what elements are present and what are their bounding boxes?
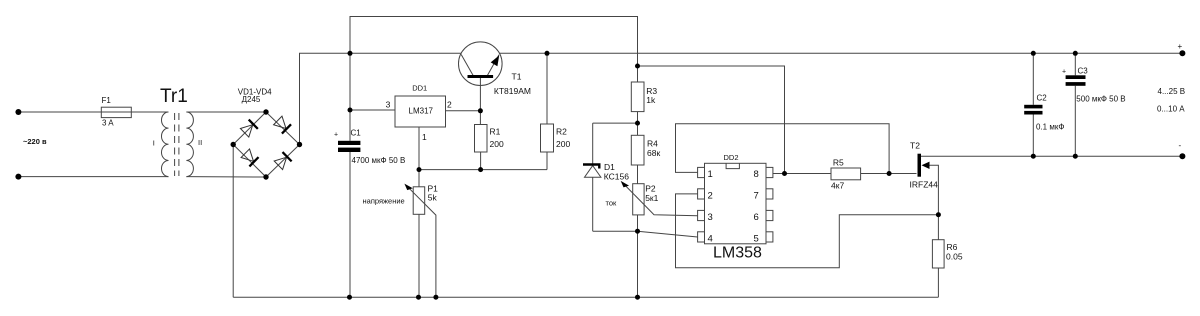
wire P2 bottom to junction and rail <box>637 215 639 297</box>
svg-text:Tr1: Tr1 <box>160 86 188 107</box>
transistor T1 collector diagonal <box>461 55 473 76</box>
wire R1 top <box>479 111 481 125</box>
LM358 pin4 box <box>698 232 705 242</box>
wire C1 to bottom rail <box>349 152 351 297</box>
wire AC bottom input <box>18 176 168 178</box>
wire R6 top <box>937 215 939 240</box>
LM358 pin5 box <box>766 232 773 242</box>
capacitor C1 plates <box>338 141 360 145</box>
wire zener bottom to P2 junction <box>593 230 638 232</box>
svg-text:4к7: 4к7 <box>831 181 844 191</box>
resistor R4 box <box>631 135 644 165</box>
svg-text:68к: 68к <box>647 148 660 158</box>
wire LM317 output pin2 <box>446 110 481 112</box>
wire y66 line to pin8 column <box>638 66 785 174</box>
resistor R1 box <box>475 125 488 153</box>
svg-text:R5: R5 <box>833 158 844 168</box>
wire P1 bottom to rail <box>418 214 420 297</box>
transistor T1 body circle <box>459 42 503 86</box>
svg-text:2: 2 <box>447 100 452 110</box>
svg-text:R4: R4 <box>647 139 658 149</box>
svg-text:5к1: 5к1 <box>645 193 658 203</box>
svg-text:LM317: LM317 <box>409 107 434 116</box>
node C1 top junction <box>348 51 353 56</box>
node output plus terminal <box>1179 50 1185 56</box>
svg-text:DD1: DD1 <box>412 84 427 93</box>
svg-text:1: 1 <box>708 169 713 180</box>
diode VD3 bridge left-bottom <box>241 149 260 168</box>
node C2 bottom junction <box>1031 154 1036 159</box>
IC DD2 notch <box>726 163 739 168</box>
svg-text:7: 7 <box>754 191 759 202</box>
svg-text:1k: 1k <box>646 95 656 105</box>
wire T1 emitter rail to output plus <box>500 52 1183 54</box>
svg-text:3: 3 <box>708 212 713 223</box>
svg-text:T2: T2 <box>910 141 920 151</box>
IC DD1 LM317 box <box>395 96 446 127</box>
svg-text:ток: ток <box>606 199 618 208</box>
wire T1 collector <box>350 52 461 54</box>
svg-text:0.1 мкФ: 0.1 мкФ <box>1036 123 1064 132</box>
wire adj line <box>419 169 547 171</box>
wire R3 to R4 <box>637 112 639 136</box>
wire secondary top to bridge <box>186 111 266 113</box>
wire bridge plus up and right <box>300 53 351 144</box>
node pin8 junction <box>782 171 787 176</box>
svg-text:напряжение: напряжение <box>363 197 405 206</box>
svg-text:+: + <box>1178 42 1183 51</box>
wire AC top input <box>18 111 101 113</box>
wire R4 to P2 <box>637 165 639 184</box>
wire bottom rail <box>233 296 938 298</box>
wire LM317 input pin3 <box>350 109 395 111</box>
svg-text:8: 8 <box>754 169 759 180</box>
transistor T1 emitter arrow head <box>491 55 500 66</box>
wire zener anode down <box>592 177 594 231</box>
svg-text:+: + <box>334 132 338 139</box>
node gate junction <box>887 171 892 176</box>
wire pin8 to R5 <box>773 173 831 175</box>
node bridge right <box>297 142 302 147</box>
diode D1 zener cathode bar <box>583 163 601 168</box>
svg-text:IRFZ44: IRFZ44 <box>910 180 939 190</box>
svg-text:КС156: КС156 <box>604 172 629 182</box>
transistor T1 emitter diagonal with arrow <box>488 55 500 75</box>
node P2 bottom rail <box>635 295 640 300</box>
node LM317 input junction <box>348 108 353 113</box>
svg-text:1: 1 <box>422 132 427 142</box>
node output minus terminal <box>1179 153 1185 159</box>
svg-text:R6: R6 <box>947 242 958 252</box>
svg-text:3: 3 <box>386 100 391 110</box>
node C1 bottom rail <box>347 295 352 300</box>
wire pin1 loop to gate node <box>676 124 890 174</box>
node adj P1 junction <box>417 167 422 172</box>
svg-text:КТ819АМ: КТ819АМ <box>494 86 531 96</box>
LM358 pin8 box <box>766 167 773 177</box>
svg-text:+: + <box>1062 69 1066 76</box>
bridge edge left-bottom <box>233 145 266 178</box>
capacitor C3 plates <box>1066 75 1086 79</box>
wire T2 source <box>923 165 938 214</box>
transformer Tr1 secondary winding <box>186 112 193 177</box>
svg-text:T1: T1 <box>512 72 522 82</box>
wire R1 bottom <box>480 152 482 170</box>
svg-text:F1: F1 <box>102 96 112 105</box>
wire R6 bottom to rail <box>937 268 939 297</box>
node bridge left <box>231 142 236 147</box>
LM358 pin6 box <box>766 210 773 220</box>
bridge edge bottom-right <box>266 145 300 178</box>
svg-text:5: 5 <box>754 234 759 245</box>
potentiometer P2 wiper to pin3 <box>623 183 698 216</box>
bridge edge top-right <box>266 112 300 145</box>
resistor R6 box <box>932 240 944 268</box>
svg-text:4: 4 <box>708 234 713 245</box>
node C3 bottom junction <box>1073 154 1078 159</box>
transistor T1 base bar <box>468 75 494 78</box>
fuse F1 <box>101 107 131 117</box>
node emitter R2 junction <box>545 51 550 56</box>
wire T1 base <box>479 78 481 111</box>
svg-text:R2: R2 <box>556 127 567 137</box>
wire bridge minus down to bottom rail <box>232 145 234 298</box>
node R3 top junction <box>635 64 640 69</box>
mosfet T2 source arrow <box>922 162 930 169</box>
potentiometer P2 box <box>633 184 644 215</box>
IC DD2 LM358 box <box>705 163 767 244</box>
capacitor C2 plates <box>1024 105 1042 109</box>
wire zener branch horizontal <box>593 122 638 124</box>
node source R6 junction <box>936 212 941 217</box>
wire C3 top <box>1074 53 1076 75</box>
LM358 pin3 box <box>698 210 705 220</box>
node T1 base junction <box>478 108 483 113</box>
svg-text:II: II <box>198 138 202 147</box>
node C2 top junction <box>1031 51 1036 56</box>
wire R5 to gate <box>861 173 917 175</box>
node C3 top junction <box>1073 51 1078 56</box>
transformer Tr1 primary winding <box>161 112 168 177</box>
svg-text:6: 6 <box>754 212 759 223</box>
wire junction diagonal to pin4 <box>638 231 698 237</box>
node bridge top <box>263 109 268 114</box>
svg-text:C2: C2 <box>1037 94 1048 103</box>
svg-text:C1: C1 <box>351 129 362 138</box>
node input top terminal <box>15 109 21 115</box>
diode VD4 bridge bottom-right <box>274 151 293 170</box>
svg-text:P2: P2 <box>645 184 656 194</box>
resistor R2 box <box>541 124 554 152</box>
wire R2 top <box>546 53 548 124</box>
LM358 pin2 box <box>698 189 705 199</box>
transformer Tr1 core <box>174 113 176 176</box>
svg-text:0.05: 0.05 <box>946 252 963 262</box>
node P1 wiper rail <box>433 295 438 300</box>
svg-text:I: I <box>153 139 155 148</box>
svg-text:0...10 А: 0...10 А <box>1157 105 1185 114</box>
svg-text:Д245: Д245 <box>242 95 261 104</box>
svg-text:2: 2 <box>708 191 713 202</box>
wire pin2 feedback loop <box>676 194 939 268</box>
node P1 bottom rail <box>416 295 421 300</box>
wire C3 bottom <box>1074 86 1076 156</box>
node input bottom terminal <box>15 174 21 180</box>
wire C2 top <box>1032 53 1034 105</box>
node R3 R4 junction <box>635 121 640 126</box>
wire R3 column top <box>637 66 639 82</box>
svg-text:200: 200 <box>490 139 504 149</box>
svg-text:3 A: 3 A <box>102 119 114 128</box>
bridge edge left-top <box>233 112 266 145</box>
resistor R5 box <box>831 168 861 180</box>
svg-text:DD2: DD2 <box>724 153 739 162</box>
wire LM317 adj pin1 down <box>418 127 420 187</box>
svg-text:~220 в: ~220 в <box>23 137 47 146</box>
svg-text:LM358: LM358 <box>713 245 762 262</box>
svg-text:5k: 5k <box>428 193 438 203</box>
resistor R3 box <box>631 82 644 112</box>
wire C2 bottom <box>1032 115 1034 157</box>
node R1 bottom junction <box>478 167 483 172</box>
LM358 pin7 box <box>766 189 773 199</box>
svg-text:4...25 В: 4...25 В <box>1158 87 1186 96</box>
diode VD1 bridge left-top <box>240 119 259 138</box>
potentiometer P1 arrow head <box>403 182 413 192</box>
wire R2 bottom <box>546 152 548 170</box>
wire zener cathode <box>592 123 594 164</box>
svg-text:500 мкФ 50 В: 500 мкФ 50 В <box>1076 95 1125 104</box>
LM358 pin1 box <box>698 167 705 177</box>
svg-text:R1: R1 <box>490 127 501 137</box>
potentiometer P2 arrow head <box>619 179 629 189</box>
svg-text:-: - <box>1179 141 1182 150</box>
wire C1 column <box>349 53 351 141</box>
svg-text:C3: C3 <box>1078 67 1089 76</box>
wire top rail <box>350 17 638 67</box>
svg-text:200: 200 <box>556 139 570 149</box>
potentiometer P1 box <box>413 187 425 215</box>
svg-text:D1: D1 <box>604 162 615 172</box>
diode VD2 bridge top-right <box>273 116 292 135</box>
potentiometer P1 wiper <box>408 187 436 298</box>
wire secondary bottom to bridge <box>186 176 266 178</box>
svg-text:4700 мкФ 50 В: 4700 мкФ 50 В <box>352 156 406 165</box>
node bridge bottom <box>263 174 268 179</box>
node P2 bottom junction <box>635 229 640 234</box>
mosfet T2 channel bar <box>918 154 922 177</box>
diode D1 zener triangle <box>585 166 601 178</box>
wire T2 drain to output minus <box>921 155 1182 157</box>
